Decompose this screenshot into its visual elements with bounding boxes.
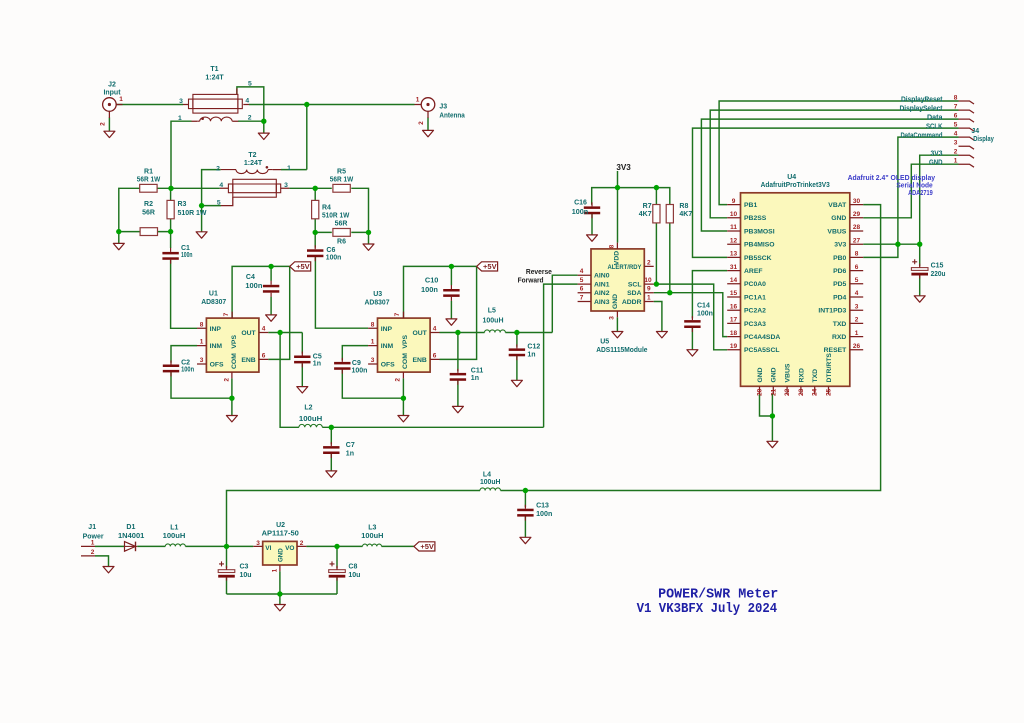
svg-text:4: 4 <box>855 290 859 297</box>
svg-text:1n: 1n <box>346 450 354 457</box>
svg-text:5: 5 <box>954 122 958 129</box>
svg-text:PB4MISO: PB4MISO <box>744 242 775 249</box>
svg-text:R1: R1 <box>144 169 153 176</box>
svg-text:2: 2 <box>647 259 651 266</box>
svg-text:INT1PD3: INT1PD3 <box>818 308 846 315</box>
svg-text:VDD: VDD <box>614 251 621 265</box>
svg-text:3V3: 3V3 <box>834 242 846 249</box>
svg-text:T2: T2 <box>248 152 256 159</box>
svg-text:RXD: RXD <box>832 334 846 341</box>
svg-text:1: 1 <box>119 96 123 103</box>
svg-text:100n: 100n <box>697 311 713 318</box>
svg-text:R5: R5 <box>337 169 346 176</box>
svg-text:100uH: 100uH <box>480 479 501 486</box>
svg-text:OUT: OUT <box>241 330 256 337</box>
svg-text:2: 2 <box>91 549 95 556</box>
svg-text:510R 1W: 510R 1W <box>178 210 207 217</box>
svg-text:ADS1115Module: ADS1115Module <box>596 347 647 354</box>
svg-text:100n: 100n <box>572 209 588 216</box>
svg-text:+5V: +5V <box>483 262 497 271</box>
svg-text:OFS: OFS <box>381 362 395 369</box>
svg-text:+5V: +5V <box>296 262 310 271</box>
svg-text:8: 8 <box>371 321 375 328</box>
svg-text:AIN0: AIN0 <box>594 273 610 280</box>
svg-text:100n: 100n <box>326 255 342 262</box>
svg-text:INM: INM <box>381 343 394 350</box>
svg-text:PC3A3: PC3A3 <box>744 321 766 328</box>
svg-text:J1: J1 <box>88 524 96 531</box>
svg-text:COM: COM <box>402 353 409 369</box>
svg-text:5: 5 <box>217 200 221 207</box>
svg-text:AREF: AREF <box>744 268 763 275</box>
svg-text:C13: C13 <box>536 503 549 510</box>
svg-text:C6: C6 <box>326 247 335 254</box>
svg-text:1N4001: 1N4001 <box>118 533 144 540</box>
svg-text:8: 8 <box>200 321 204 328</box>
svg-text:R6: R6 <box>337 239 346 246</box>
svg-text:10u: 10u <box>348 572 360 579</box>
svg-text:1:24T: 1:24T <box>244 160 263 167</box>
svg-text:4: 4 <box>580 268 584 275</box>
svg-text:ENB: ENB <box>412 357 426 364</box>
svg-text:ADDR: ADDR <box>622 299 642 306</box>
svg-text:PD6: PD6 <box>833 268 846 275</box>
svg-text:4: 4 <box>262 326 266 333</box>
svg-text:7: 7 <box>580 295 584 302</box>
svg-text:PB3MOSI: PB3MOSI <box>744 228 775 235</box>
svg-text:PD4: PD4 <box>833 294 846 301</box>
svg-text:VI: VI <box>265 545 271 552</box>
svg-text:PC5A5SCL: PC5A5SCL <box>744 347 780 354</box>
svg-text:19: 19 <box>730 343 738 350</box>
svg-text:INM: INM <box>210 343 223 350</box>
svg-text:C16: C16 <box>574 199 587 206</box>
svg-text:6: 6 <box>433 352 437 359</box>
svg-text:27: 27 <box>853 237 861 244</box>
svg-text:7: 7 <box>954 104 958 111</box>
svg-text:100n: 100n <box>181 252 193 259</box>
svg-text:PC1A1: PC1A1 <box>744 294 766 301</box>
svg-text:GND: GND <box>612 294 619 309</box>
svg-text:1n: 1n <box>313 361 321 368</box>
svg-text:C9: C9 <box>352 360 361 367</box>
svg-text:VBUS: VBUS <box>827 228 846 235</box>
svg-text:3: 3 <box>371 357 375 364</box>
svg-text:PB2SS: PB2SS <box>744 215 767 222</box>
svg-text:17: 17 <box>730 317 738 324</box>
svg-text:D1: D1 <box>126 524 135 531</box>
svg-text:GND: GND <box>831 215 846 222</box>
svg-text:C4: C4 <box>246 274 255 281</box>
svg-text:C5: C5 <box>313 353 322 360</box>
svg-text:AIN3: AIN3 <box>594 299 610 306</box>
svg-text:3: 3 <box>609 316 616 320</box>
svg-text:J3: J3 <box>439 104 447 111</box>
svg-text:7: 7 <box>223 312 230 316</box>
svg-text:SCL: SCL <box>628 282 642 289</box>
svg-text:56R 1W: 56R 1W <box>330 177 354 184</box>
svg-text:L4: L4 <box>483 472 491 479</box>
svg-text:3V3: 3V3 <box>931 151 943 158</box>
svg-text:1: 1 <box>178 115 182 122</box>
svg-text:AdafruitProTrinket3V3: AdafruitProTrinket3V3 <box>761 182 830 189</box>
svg-text:Adafruit 2.4" OLED display: Adafruit 2.4" OLED display <box>848 175 936 182</box>
svg-text:16: 16 <box>730 303 738 310</box>
svg-text:9: 9 <box>647 286 651 293</box>
svg-text:PB0: PB0 <box>833 255 846 262</box>
svg-text:OUT: OUT <box>412 330 427 337</box>
svg-text:1: 1 <box>91 539 95 546</box>
svg-text:AD8307: AD8307 <box>365 299 390 306</box>
svg-text:24: 24 <box>812 388 819 396</box>
svg-text:R3: R3 <box>178 201 187 208</box>
svg-text:T1: T1 <box>210 66 218 73</box>
svg-text:INP: INP <box>381 326 393 333</box>
svg-text:ADA2719: ADA2719 <box>908 190 933 197</box>
svg-text:8: 8 <box>954 95 958 102</box>
svg-text:4: 4 <box>245 98 249 105</box>
svg-text:C3: C3 <box>240 564 249 571</box>
svg-text:PC2A2: PC2A2 <box>744 308 766 315</box>
svg-text:GND: GND <box>278 548 285 562</box>
svg-text:2: 2 <box>418 121 425 125</box>
svg-text:DisplaySelect: DisplaySelect <box>900 106 944 113</box>
svg-text:3V3: 3V3 <box>616 162 631 172</box>
svg-text:U5: U5 <box>600 339 609 346</box>
svg-text:100n: 100n <box>181 367 194 374</box>
svg-text:Display: Display <box>973 136 994 143</box>
svg-text:5: 5 <box>248 81 252 88</box>
svg-text:J2: J2 <box>108 82 116 89</box>
svg-text:L1: L1 <box>170 525 178 532</box>
svg-text:510R 1W: 510R 1W <box>322 213 350 220</box>
svg-text:PB5SCK: PB5SCK <box>744 255 772 262</box>
svg-text:DTR/RTS: DTR/RTS <box>826 353 833 383</box>
svg-text:C15: C15 <box>931 262 944 269</box>
svg-text:5: 5 <box>580 277 584 284</box>
svg-text:2: 2 <box>100 122 107 126</box>
svg-text:Serial Node: Serial Node <box>896 183 932 190</box>
svg-text:R4: R4 <box>322 205 331 212</box>
svg-text:22: 22 <box>784 388 791 396</box>
svg-text:3: 3 <box>179 98 183 105</box>
svg-text:13: 13 <box>730 251 738 258</box>
svg-text:C14: C14 <box>697 303 710 310</box>
svg-text:6: 6 <box>262 352 266 359</box>
svg-text:1: 1 <box>371 339 375 346</box>
svg-text:18: 18 <box>730 330 738 337</box>
svg-text:C2: C2 <box>181 359 190 366</box>
svg-text:VPS: VPS <box>402 335 409 349</box>
svg-text:VPS: VPS <box>231 335 238 349</box>
svg-text:L3: L3 <box>368 525 376 532</box>
svg-text:10u: 10u <box>240 572 252 579</box>
svg-text:DataCommand: DataCommand <box>901 133 943 140</box>
svg-text:INP: INP <box>210 326 222 333</box>
svg-text:2: 2 <box>954 149 958 156</box>
svg-text:14: 14 <box>730 277 738 284</box>
svg-text:Data: Data <box>927 115 943 122</box>
svg-text:PB1: PB1 <box>744 202 757 209</box>
svg-text:1:24T: 1:24T <box>205 75 224 82</box>
svg-text:6: 6 <box>855 264 859 271</box>
svg-text:4: 4 <box>433 326 437 333</box>
svg-text:Reverse: Reverse <box>526 269 552 276</box>
svg-text:4K7: 4K7 <box>639 211 652 218</box>
svg-text:8: 8 <box>609 244 616 248</box>
svg-text:C12: C12 <box>527 343 540 350</box>
svg-text:1n: 1n <box>527 352 535 359</box>
svg-text:L5: L5 <box>488 308 496 315</box>
svg-text:100n: 100n <box>421 287 438 294</box>
svg-text:R8: R8 <box>679 203 688 210</box>
svg-text:PC0A0: PC0A0 <box>744 281 766 288</box>
svg-text:3: 3 <box>200 357 204 364</box>
svg-text:AIN1: AIN1 <box>594 282 610 289</box>
svg-text:J4: J4 <box>971 128 979 135</box>
svg-text:23: 23 <box>798 388 805 396</box>
svg-text:20: 20 <box>757 388 764 396</box>
svg-text:5: 5 <box>855 277 859 284</box>
svg-text:3: 3 <box>855 303 859 310</box>
svg-text:PD5: PD5 <box>833 281 846 288</box>
svg-text:26: 26 <box>853 343 861 350</box>
svg-text:RXD: RXD <box>798 368 805 382</box>
svg-text:10: 10 <box>644 277 652 284</box>
svg-text:28: 28 <box>853 224 861 231</box>
svg-text:100uH: 100uH <box>163 533 186 540</box>
svg-text:1: 1 <box>272 568 279 572</box>
svg-text:10: 10 <box>730 211 738 218</box>
svg-text:2: 2 <box>855 317 859 324</box>
svg-text:VO: VO <box>285 545 294 552</box>
svg-text:1: 1 <box>855 330 859 337</box>
svg-text:SDA: SDA <box>627 290 641 297</box>
svg-text:15: 15 <box>730 290 738 297</box>
svg-text:21: 21 <box>770 388 777 396</box>
svg-text:2: 2 <box>224 378 231 382</box>
svg-text:30: 30 <box>853 198 861 205</box>
svg-text:SCLK: SCLK <box>926 124 943 131</box>
svg-text:4K7: 4K7 <box>679 211 692 218</box>
svg-text:C10: C10 <box>425 278 439 285</box>
svg-text:29: 29 <box>853 211 861 218</box>
svg-text:6: 6 <box>580 286 584 293</box>
svg-text:100n: 100n <box>245 283 262 290</box>
svg-text:56R 1W: 56R 1W <box>137 177 161 184</box>
svg-text:3: 3 <box>954 140 958 147</box>
svg-text:VBUS: VBUS <box>785 363 792 382</box>
svg-text:1: 1 <box>287 165 291 172</box>
svg-text:AD8307: AD8307 <box>201 299 226 306</box>
svg-text:DisplayReset: DisplayReset <box>901 96 943 103</box>
svg-text:2: 2 <box>395 378 402 382</box>
svg-text:3: 3 <box>256 540 260 547</box>
svg-text:3: 3 <box>284 182 288 189</box>
svg-text:9: 9 <box>732 198 736 205</box>
svg-text:GND: GND <box>771 367 778 382</box>
svg-text:AP1117-50: AP1117-50 <box>262 531 299 538</box>
svg-text:2: 2 <box>300 540 304 547</box>
svg-text:2: 2 <box>248 115 252 122</box>
svg-text:GND: GND <box>757 367 764 382</box>
svg-text:Forward: Forward <box>518 277 544 284</box>
svg-text:R2: R2 <box>144 201 153 208</box>
svg-text:TXD: TXD <box>833 321 847 328</box>
svg-text:U1: U1 <box>209 290 218 297</box>
svg-text:Antenna: Antenna <box>439 113 464 120</box>
svg-text:1: 1 <box>954 158 958 165</box>
svg-text:C8: C8 <box>348 564 357 571</box>
svg-text:L2: L2 <box>304 405 312 412</box>
svg-text:C7: C7 <box>346 442 355 449</box>
svg-text:POWER/SWR Meter: POWER/SWR Meter <box>658 586 778 602</box>
svg-text:V1 VK3BFX July 2024: V1 VK3BFX July 2024 <box>637 601 778 617</box>
svg-text:PC4A4SDA: PC4A4SDA <box>744 334 780 341</box>
svg-text:31: 31 <box>730 264 738 271</box>
svg-text:100uH: 100uH <box>483 318 504 325</box>
svg-text:100n: 100n <box>352 367 368 374</box>
svg-text:7: 7 <box>394 312 401 316</box>
svg-text:C1: C1 <box>181 245 190 252</box>
svg-text:COM: COM <box>231 353 238 369</box>
svg-text:220u: 220u <box>931 271 946 278</box>
svg-text:56R: 56R <box>335 221 348 228</box>
svg-text:100uH: 100uH <box>299 416 322 423</box>
svg-text:25: 25 <box>826 388 833 396</box>
svg-text:+5V: +5V <box>420 542 434 551</box>
svg-text:4: 4 <box>219 182 223 189</box>
svg-text:6: 6 <box>954 113 958 120</box>
svg-text:8: 8 <box>855 251 859 258</box>
svg-text:U3: U3 <box>373 291 382 298</box>
svg-text:1: 1 <box>200 339 204 346</box>
svg-text:U4: U4 <box>787 174 796 181</box>
svg-text:1: 1 <box>647 295 651 302</box>
svg-text:100uH: 100uH <box>361 533 383 540</box>
svg-text:ENB: ENB <box>241 357 255 364</box>
svg-text:4: 4 <box>954 131 958 138</box>
svg-text:100n: 100n <box>536 511 552 518</box>
svg-text:1n: 1n <box>471 375 479 382</box>
svg-text:GND: GND <box>929 160 943 167</box>
svg-text:12: 12 <box>730 237 738 244</box>
svg-text:U2: U2 <box>276 522 285 529</box>
svg-text:TXD: TXD <box>812 369 819 383</box>
svg-text:2: 2 <box>216 165 220 172</box>
svg-text:56R: 56R <box>142 210 155 217</box>
svg-text:VBAT: VBAT <box>828 202 847 209</box>
svg-text:C11: C11 <box>471 367 484 374</box>
svg-text:11: 11 <box>730 224 737 231</box>
svg-text:1: 1 <box>416 97 420 104</box>
svg-text:AIN2: AIN2 <box>594 290 610 297</box>
svg-text:OFS: OFS <box>210 362 224 369</box>
svg-text:R7: R7 <box>643 203 652 210</box>
